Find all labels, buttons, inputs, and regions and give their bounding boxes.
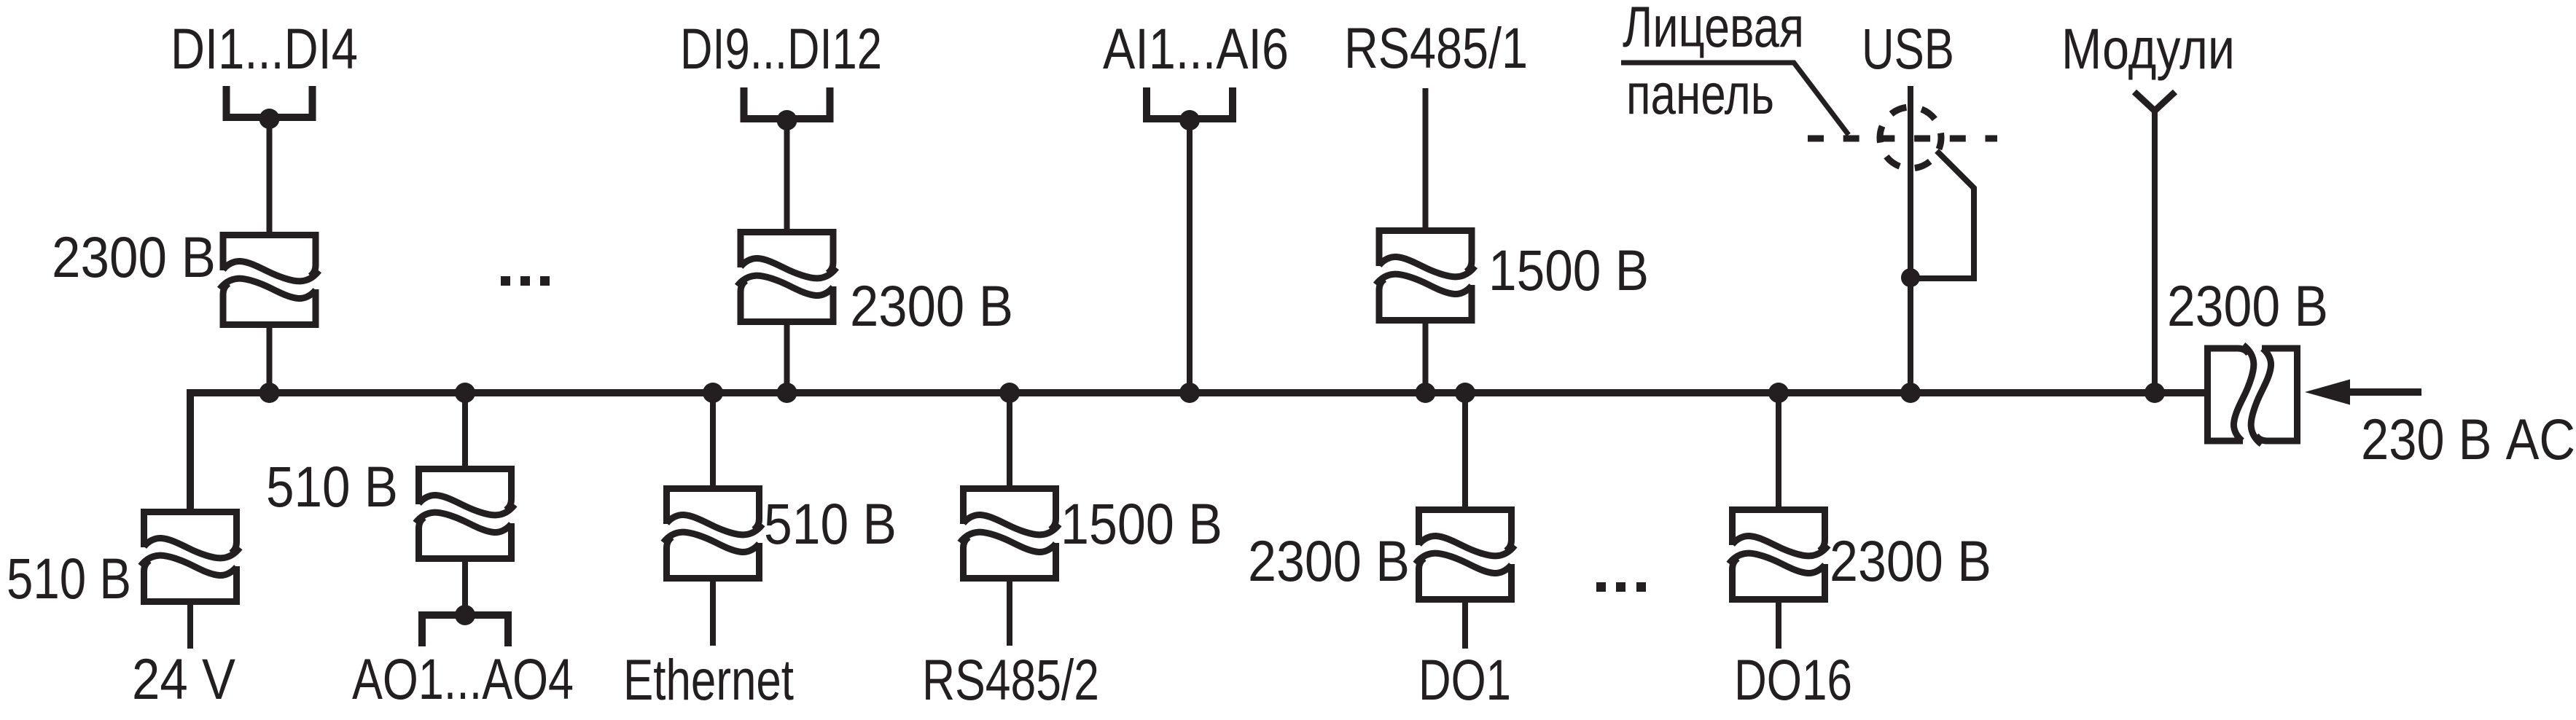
wire: modules fork to bus <box>2152 109 2158 393</box>
node: AO group junction dot <box>455 605 475 625</box>
svg-text:Лицевая: Лицевая <box>1623 0 1804 59</box>
isolation barrier power 2300V (rotated) <box>2208 345 2298 445</box>
wire: bus to Ethernet barrier <box>710 393 716 485</box>
node: USB bus junction <box>1900 383 1921 403</box>
isolation barrier AO 510V <box>415 469 515 559</box>
dashed circle (front panel connector) <box>1880 107 1941 168</box>
svg-text:510 В: 510 В <box>266 454 398 519</box>
node: USB mid junction dot <box>1901 268 1920 287</box>
svg-text:2300 В: 2300 В <box>850 273 1013 338</box>
bracket: AI1..AI6 group <box>1143 87 1236 119</box>
leader line from label to dashed boundary <box>1621 63 1849 135</box>
svg-text:Ethernet: Ethernet <box>623 647 794 712</box>
svg-text:DI9...DI12: DI9...DI12 <box>680 16 882 81</box>
isolation barrier DO16 2300V <box>1729 510 1828 600</box>
svg-text:панель: панель <box>1626 61 1774 126</box>
wire: DI9 bracket to barrier <box>784 120 790 229</box>
svg-text:2300 В: 2300 В <box>1248 528 1410 593</box>
node: RS485/2 bus junction <box>999 383 1020 403</box>
svg-text:RS485/1: RS485/1 <box>1344 15 1528 80</box>
svg-text:24 V: 24 V <box>132 646 235 711</box>
isolation barrier DI1 2300V <box>220 235 319 325</box>
svg-text:510 В: 510 В <box>764 491 897 556</box>
isolation barrier Ethernet 510V <box>663 489 762 579</box>
wire: below RS485/2 barrier <box>1007 582 1012 646</box>
svg-text:2300 В: 2300 В <box>1830 528 1991 593</box>
node: AO bus junction <box>455 383 475 403</box>
wire: RS485/1 label to barrier <box>1423 88 1429 227</box>
svg-text:AO1...AO4: AO1...AO4 <box>352 646 574 711</box>
wire: RS485/1 barrier to bus <box>1423 324 1429 393</box>
bracket: AO1..AO4 group <box>418 615 512 646</box>
wire: main internal bus <box>190 389 2204 396</box>
wire: bus to DO1 barrier <box>1462 393 1468 506</box>
wire: bus to RS485/2 barrier <box>1007 393 1012 485</box>
ellipsis dots top <box>501 276 510 286</box>
node: DI9 bus junction <box>777 383 797 403</box>
svg-text:DO1: DO1 <box>1418 647 1511 712</box>
wire: below DO1 barrier <box>1462 603 1468 649</box>
wire: below Ethernet barrier <box>710 582 716 646</box>
isolation barrier DI9 2300V <box>738 232 837 322</box>
isolation barrier 24V 510V <box>141 512 240 602</box>
isolation barrier RS485/1 1500V <box>1376 231 1475 321</box>
wire: DI9 barrier to bus <box>784 325 790 393</box>
arrow: 230 V AC input <box>2305 380 2350 405</box>
wire: bus to AO barrier <box>462 393 468 466</box>
svg-text:DO16: DO16 <box>1734 647 1852 712</box>
bracket: DI9..DI12 group <box>741 87 834 119</box>
fork: module connector Y <box>2134 92 2175 111</box>
wire: DI1 barrier to bus <box>267 328 273 393</box>
wire: AI group to bus <box>1187 120 1193 393</box>
svg-text:230 В AC: 230 В AC <box>2361 407 2575 471</box>
svg-text:USB: USB <box>1862 16 1954 81</box>
wire: DI1 bracket to barrier <box>267 119 273 232</box>
node: AI group junction dot <box>1179 110 1200 130</box>
wire: AO barrier to bracket <box>462 562 468 615</box>
wire: below 24V barrier <box>187 605 193 649</box>
svg-text:510 В: 510 В <box>7 546 131 611</box>
node: DI group junction dot <box>259 109 280 129</box>
isolation barrier RS485/2 1500V <box>960 489 1059 579</box>
wire: USB down to bus <box>1908 86 1913 393</box>
svg-text:2300 В: 2300 В <box>52 224 216 289</box>
svg-text:1500 В: 1500 В <box>1488 238 1649 302</box>
svg-text:AI1...AI6: AI1...AI6 <box>1103 16 1289 81</box>
wire: bus left corner down to 24V barrier <box>187 389 194 509</box>
dashed boundary line (front panel) <box>1808 136 1997 142</box>
svg-text:Модули: Модули <box>2061 16 2235 81</box>
isolation barrier DO1 2300V <box>1416 510 1515 600</box>
svg-text:2300 В: 2300 В <box>2167 273 2328 338</box>
node: DO16 bus junction <box>1768 383 1789 403</box>
node: DO1 bus junction <box>1455 383 1475 403</box>
svg-text:RS485/2: RS485/2 <box>922 647 1099 712</box>
node: Ethernet bus junction <box>703 383 723 403</box>
node: DI1 bus junction <box>259 383 280 403</box>
wire: bus to DO16 barrier <box>1776 393 1781 506</box>
node: DI9 group junction dot <box>777 110 797 130</box>
svg-text:DI1...DI4: DI1...DI4 <box>171 16 358 81</box>
svg-text:1500 В: 1500 В <box>1061 491 1222 556</box>
wire: below DO16 barrier <box>1776 603 1781 649</box>
node: RS485/1 bus junction <box>1416 383 1436 403</box>
ellipsis dots bottom <box>1596 582 1606 592</box>
bracket: DI1..DI4 group <box>223 86 316 117</box>
wire: front panel hook to USB line <box>1917 151 1974 278</box>
node: modules bus junction <box>2144 383 2165 403</box>
node: AI bus junction <box>1179 383 1200 403</box>
